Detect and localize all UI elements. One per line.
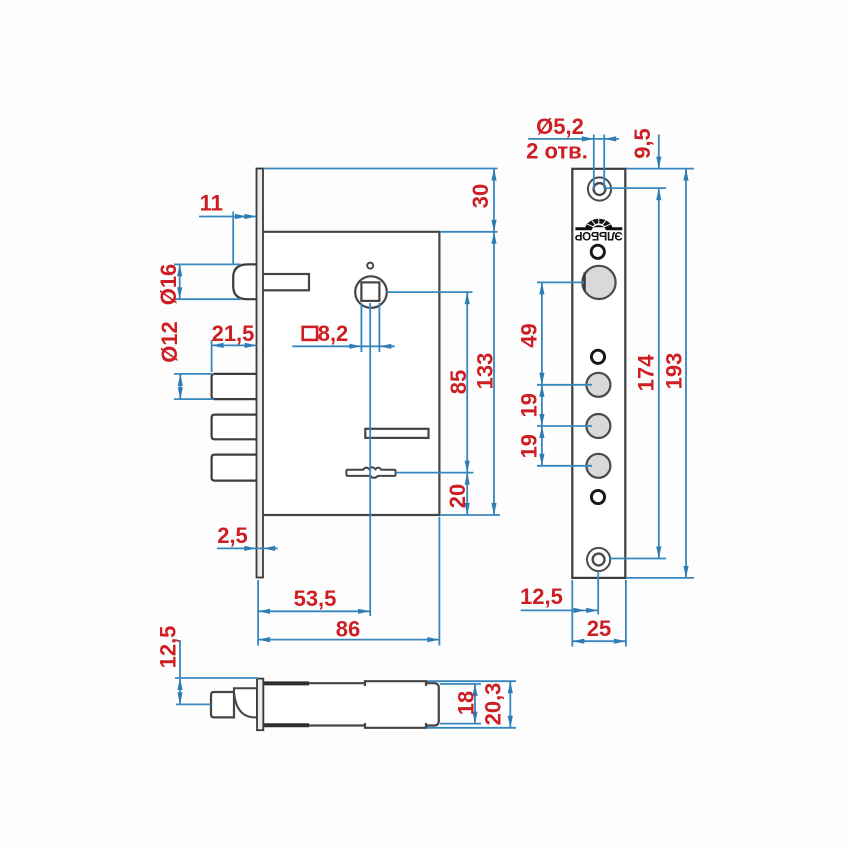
dim 8,2 ext right [378,303,380,352]
right view: plate bottom ext right [626,577,694,579]
right view: dim 19 line b [541,426,543,466]
top view: dim 12,5 line [179,640,181,704]
dim O12 ext top [174,373,214,375]
svg-text:193: 193 [662,353,687,390]
right view: dim 174 line [658,188,660,558]
main side view: lock body outline [263,232,439,515]
arrows dim 30 [491,169,496,181]
body bottom ext right [440,514,500,516]
arrows dim 193 [683,169,688,181]
label 8,2 square symbol [303,327,317,340]
top view: dim 18 line [474,684,476,724]
svg-text:19: 19 [517,434,542,458]
spindle centre ext to right [387,291,473,293]
dim 53,5 line [258,610,370,612]
right view: O5,2 dim line [528,138,619,140]
arrows dim 25 [572,639,584,644]
top view: wider slide section 20.3 [364,682,427,728]
right view: bolt hole 2 [586,414,610,438]
svg-text:2,5: 2,5 [217,523,248,548]
svg-text:8,2: 8,2 [318,321,349,346]
spindle circle [355,276,387,308]
right view: dim 25 line [572,640,626,642]
front faceplate bar (side view) [257,169,264,578]
svg-text:Ø5,2: Ø5,2 [536,114,584,139]
right view: bolt hole 1 [586,373,610,397]
right view: O5,2 ext vline left [593,135,595,190]
right view: plate-right ext down [625,580,627,647]
right view: small hole mid [591,350,604,363]
arrows dim 21,5 [212,343,224,348]
dim 133 line [493,232,495,515]
lower bolt 2 (Ø12) [212,415,257,440]
right view: bottom screw hole outer [587,548,610,571]
right view: top screw hole inner Ø5.2 [594,183,606,195]
dim 85 line [466,292,468,473]
dim 11 extension vline [232,212,234,265]
svg-text:19: 19 [517,393,542,417]
dim 21,5 line [212,344,257,346]
arrows dim 19 a [539,385,544,397]
svg-text:20: 20 [445,484,470,508]
right view: plate-left ext down [571,580,573,647]
top view: faceplate edge-on [257,679,263,731]
arrows dim 2,5 [244,546,256,551]
top view: ext 12,5 top [175,677,258,679]
logo ELBOR fan [585,219,613,230]
top view: dim 20,3 line [509,681,511,728]
logo ELBOR text (upside down) [574,229,622,242]
top view: deadbolt guide thick edges [263,681,309,685]
extension line: faceplate top to 30/133 dims [264,168,498,170]
top view: ext 18 bottom [440,723,481,725]
dim O12 ext bottom [174,398,214,400]
svg-text:12,5: 12,5 [156,626,181,669]
svg-text:12,5: 12,5 [520,584,563,609]
svg-text:30: 30 [468,184,493,208]
small pin dot above spindle [367,263,373,269]
logo ELBOR bar [575,225,622,230]
arrows dim O5,2 [582,136,594,141]
arrows dim 49 [539,282,544,294]
deadbolt slide rectangle inside body [262,274,310,290]
arrows dim 8,2 [349,344,361,349]
dim 86 line [258,639,439,641]
faceplate-left ext down to 53,5/86 [257,580,259,646]
dim 2,5 line [217,547,278,549]
dim 30 line [493,169,495,232]
svg-text:11: 11 [200,191,223,216]
arrows dim 20 [465,473,470,485]
dim O16 ext top [174,263,241,265]
right view: bolt hole 3 [586,454,610,478]
top view: ext 12,5 bottom [176,703,211,705]
svg-text:ЭЛЬБОР: ЭЛЬБОР [574,229,622,242]
svg-text:53,5: 53,5 [294,586,337,611]
right view: dim 12,5 line [521,609,599,611]
dim 21,5 ext vline [211,340,213,372]
right view: dim 49 line [541,282,543,384]
arrows dim 12,5 top view [177,678,182,690]
keyhole ext right [396,472,474,474]
top view: ext 20,3 bottom [427,727,516,729]
svg-text:49: 49 [517,323,542,347]
svg-text:18: 18 [454,691,479,715]
dim O12 line [179,374,181,399]
square spindle hole 8.2 [361,282,379,301]
arrows dim 19 b [539,426,544,438]
svg-text:2 отв.: 2 отв. [526,139,588,164]
top view: latch bevel wedge [234,688,257,717]
arrows dim 9,5 [656,157,661,169]
body-right ext down [438,517,440,646]
lower bolt 3 (Ø12) [212,455,257,481]
right view: dim 19 line a [541,385,543,426]
arrows dim 174 [656,547,661,559]
svg-text:133: 133 [473,353,498,390]
right view: hole1 ext left [537,384,592,386]
right view: bottom hole centre ext right [609,558,666,560]
dim 8,2 ext left [360,303,362,352]
right view: hole centre ext right [604,187,666,189]
right view: faceplate front [572,169,625,578]
svg-text:Ø16: Ø16 [156,264,181,306]
right view: dim 193 line [685,169,687,578]
top view: latch head [211,692,234,717]
svg-text:174: 174 [634,354,659,391]
arrows dim 11 (double right) [235,214,247,219]
lower bolt 1 (Ø12) [212,374,257,399]
svg-text:85: 85 [446,370,471,394]
arrows dim 53,5 [258,609,270,614]
right view: O5,2 ext vline right [603,135,605,190]
middle slide plate [365,429,428,438]
arrows dim 18 [472,684,477,696]
arrows dim 86 [258,637,270,642]
svg-text:86: 86 [336,617,360,642]
right view: plate top ext right [626,168,694,170]
right view: big hole ext left [537,281,584,283]
right view: hole2 ext left [537,425,592,427]
right view: top screw hole outer [588,177,611,200]
arrows dim 12,5 right (double right) [574,608,586,613]
right view: small hole under logo [591,245,604,258]
arrows dim 133 [491,232,496,244]
svg-text:9,5: 9,5 [630,128,655,159]
right view: big cylinder hole [582,266,615,299]
spindle centre line down [369,303,371,616]
keyhole lever profile [346,467,395,478]
right view: chord edge in big hole [583,273,585,292]
svg-text:21,5: 21,5 [212,321,255,346]
right view: hole3 ext left [537,465,592,467]
arrows dim 85 [465,292,470,304]
svg-text:25: 25 [587,616,611,641]
arrows dim O16 [177,264,182,276]
arrows dim O12 [178,374,183,386]
right view: bottom hole centre ext down [597,571,599,615]
dim 11 line [199,216,257,218]
top view: ext 20,3 top [427,680,516,682]
right view: bottom screw hole inner [593,554,605,566]
top view: ext 18 top [440,683,481,685]
dim 20 line [466,473,468,515]
dim O16 ext bottom [174,298,241,300]
right view: dim 9,5 upper segment [658,135,660,169]
svg-text:20,3: 20,3 [481,683,506,726]
extension line: body top edge right [440,231,498,233]
top view: lock body bar [263,683,439,725]
deadbolt head (round bolt Ø16) [233,264,257,299]
dim 8,2 line [292,345,394,347]
logo fan ray separations [587,219,610,229]
svg-text:Ø12: Ø12 [157,321,182,363]
arrows dim 20,3 [508,681,513,693]
dim O16 line [179,264,181,299]
right view: small hole low [591,490,604,503]
